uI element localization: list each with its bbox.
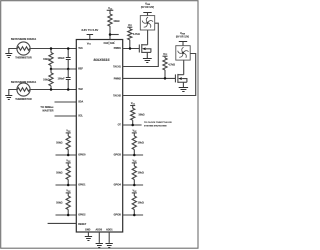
svg-text:REF: REF — [78, 68, 83, 71]
ground (ADD1) — [106, 244, 113, 248]
wire: PWM2 to Q2 gate — [123, 77, 176, 79]
node: GPIO0 junction — [67, 154, 70, 157]
node: GPIO5 junction — [133, 214, 136, 217]
wire: GPIO3 — [123, 154, 143, 156]
wire: PWM1 to Q1 gate — [123, 48, 140, 50]
figure frame border — [1, 1, 198, 249]
thermistor RT1 (BETATHERM 10K3A1) — [11, 38, 37, 59]
svg-text:SYSTEM SHUTDOWN: SYSTEM SHUTDOWN — [144, 125, 167, 127]
power VFAN1 5V OR 12V — [141, 2, 154, 12]
wire: RESET — [48, 222, 77, 224]
wire: SDA to SMBus master — [55, 101, 77, 103]
svg-text:100nF: 100nF — [58, 78, 65, 81]
resistor 10k GPIO3 pullup — [132, 133, 144, 155]
wire: TH2 net — [30, 89, 76, 91]
resistor 10k GPIO0 pullup — [56, 133, 70, 155]
wire: VFAN2 to fan M2 — [182, 42, 184, 46]
svg-text:10kΩ: 10kΩ — [138, 172, 144, 175]
svg-text:TO CLOCK THROTTLE OR: TO CLOCK THROTTLE OR — [144, 122, 172, 124]
op-amp U1 MAX6616 fan controller IC body — [76, 40, 122, 233]
wire: supply to VCC pin — [89, 35, 91, 40]
svg-text:GPIO4: GPIO4 — [114, 184, 122, 187]
svg-text:TH1: TH1 — [78, 47, 83, 50]
svg-text:PWM1: PWM1 — [114, 47, 122, 50]
power VCC (PWM1 pullup) — [127, 24, 133, 27]
resistor R6 10k OT pullup — [131, 106, 145, 126]
svg-text:SDA: SDA — [78, 101, 83, 104]
svg-text:(5V OR 12V): (5V OR 12V) — [176, 37, 189, 39]
label: TO SMBus MASTER — [40, 105, 54, 112]
svg-text:10kΩ: 10kΩ — [138, 142, 144, 145]
resistor R5 4.7k PWM2 pullup — [163, 56, 175, 78]
wire: FANFAIL stub — [110, 34, 119, 36]
wire: Q1 source to ground — [146, 52, 148, 58]
wire: GPIO5 — [123, 214, 143, 216]
resistor R3 10k FANFAIL pullup — [108, 10, 120, 34]
node: TH2/C2 junction — [67, 88, 70, 91]
wire: SCL to SMBus master — [55, 115, 77, 117]
svg-text:MASTER: MASTER — [43, 109, 54, 113]
svg-text:GPIO5: GPIO5 — [114, 214, 122, 217]
svg-text:10kΩ: 10kΩ — [56, 171, 62, 175]
capacitor C1 100nF (TH1 to REF) — [58, 49, 71, 70]
svg-text:100nF: 100nF — [58, 57, 65, 60]
wire: thermistor RT2 to ground — [9, 90, 17, 96]
wire: GPIO2 — [56, 214, 77, 216]
power VCC (GPIO2 pullup) — [66, 190, 72, 193]
node: TH2/R2 junction — [50, 88, 53, 91]
capacitor C2 100nF (REF to TH2) — [58, 69, 71, 90]
node: REF/C1 junction — [67, 68, 70, 71]
resistor R2 10k (REF to TH2) — [43, 69, 53, 90]
wire: fan M1 tach to TACH1 — [123, 23, 159, 66]
wire: Q1 drain to fan M1 — [147, 30, 149, 45]
resistor 10k GPIO4 pullup — [132, 163, 144, 185]
wire: fan M2 tach to TACH2 — [123, 54, 196, 96]
svg-text:MAX6616: MAX6616 — [94, 58, 111, 62]
svg-text:TACH2: TACH2 — [113, 94, 121, 97]
svg-text:GND: GND — [85, 229, 91, 232]
power VCC (GPIO1 pullup) — [66, 160, 72, 163]
power VCC (GPIO3 pullup) — [132, 130, 138, 133]
ground (Q1 source) — [143, 59, 152, 63]
wire: FANFAIL pin — [109, 35, 111, 40]
power VFAN2 5V OR 12V — [176, 32, 189, 42]
svg-text:BETATHERM 10K3A1: BETATHERM 10K3A1 — [11, 81, 37, 84]
svg-text:ADD0: ADD0 — [96, 229, 103, 232]
power VCC (GPIO5 pullup) — [132, 190, 138, 193]
transistor Q2 N-channel MOSFET — [175, 74, 187, 83]
svg-text:(5V OR 12V): (5V OR 12V) — [141, 7, 154, 9]
power supply 3.3V TO 5.5V — [81, 28, 98, 34]
svg-text:OT: OT — [118, 124, 122, 127]
label: TO CLOCK THROTTLE OR SYSTEM SHUTDOWN — [144, 122, 172, 127]
node: REF/R1 junction — [50, 68, 53, 71]
svg-text:10kΩ: 10kΩ — [113, 20, 119, 23]
ground (Q2 source) — [179, 88, 188, 92]
svg-text:GPIO2: GPIO2 — [78, 214, 86, 217]
power VCC (PWM2 pullup) — [163, 53, 169, 56]
resistor 10k GPIO2 pullup — [56, 193, 70, 215]
wire: thermistor RT1 to ground — [9, 49, 17, 54]
svg-text:4.7kΩ: 4.7kΩ — [168, 63, 175, 66]
resistor R1 10k (TH1 to REF) — [43, 49, 53, 70]
svg-text:10kΩ: 10kΩ — [56, 141, 62, 145]
resistor 10k GPIO1 pullup — [56, 163, 70, 185]
svg-text:GPIO3: GPIO3 — [114, 154, 122, 157]
svg-text:10kΩ: 10kΩ — [138, 113, 144, 116]
power VCC (GPIO0 pullup) — [66, 130, 72, 133]
svg-text:BETATHERM 10K3A1: BETATHERM 10K3A1 — [11, 38, 37, 41]
ground (thermistor RT2) — [5, 96, 12, 100]
resistor R4 4.7k PWM1 pullup — [128, 27, 140, 48]
svg-text:THERMISTOR: THERMISTOR — [15, 56, 32, 59]
node: TH1/R1 junction — [50, 47, 53, 50]
svg-text:10kΩ: 10kΩ — [138, 202, 144, 205]
wire: REF net — [51, 68, 76, 70]
wire: GPIO4 — [123, 184, 143, 186]
node: GPIO2 junction — [67, 214, 70, 217]
node: GPIO3 junction — [133, 154, 136, 157]
svg-text:VFAN: VFAN — [145, 2, 151, 5]
wire: Q2 drain to fan M2 — [183, 60, 185, 75]
ground (GND pin) — [85, 237, 92, 241]
ground (ADD0) — [96, 244, 103, 248]
svg-text:10kΩ: 10kΩ — [56, 201, 62, 205]
svg-text:VFAN: VFAN — [180, 32, 186, 35]
svg-text:10kΩ: 10kΩ — [43, 77, 49, 81]
wire: TH1 net — [30, 48, 76, 50]
fan M1 — [140, 16, 154, 30]
node: TH1/C1 junction — [67, 47, 70, 50]
svg-text:FAN_FAIL: FAN_FAIL — [104, 42, 116, 45]
wire: ADD1 pin to ground — [108, 232, 110, 243]
transistor Q1 N-channel MOSFET — [139, 44, 151, 53]
wire: GPIO0 — [56, 154, 77, 156]
power VCC (GPIO4 pullup) — [132, 160, 138, 163]
svg-text:THERMISTOR: THERMISTOR — [15, 98, 32, 101]
power VCC (FANFAIL pullup) — [107, 7, 114, 10]
wire: GPIO1 — [56, 184, 77, 186]
svg-text:ADD1: ADD1 — [106, 229, 113, 232]
wire: GND pin to ground — [87, 232, 89, 236]
wire: ADD0 pin to ground — [98, 232, 100, 243]
svg-text:GPIO1: GPIO1 — [78, 184, 86, 187]
svg-text:TO SMBus: TO SMBus — [40, 105, 54, 109]
resistor 10k GPIO5 pullup — [132, 193, 144, 215]
node: GPIO1 junction — [67, 184, 70, 187]
svg-text:RESET: RESET — [78, 223, 87, 226]
wire: VFAN1 to fan M1 — [147, 13, 149, 16]
svg-text:3.3V TO 5.5V: 3.3V TO 5.5V — [81, 28, 98, 32]
node: PWM1/R4 junction — [129, 47, 132, 50]
node: FANFAIL junction — [109, 33, 112, 36]
svg-text:10kΩ: 10kΩ — [43, 57, 49, 61]
thermistor RT2 (BETATHERM 10K3A1) — [11, 81, 37, 101]
power VCC (OT pullup) — [130, 102, 136, 105]
svg-text:PWM2: PWM2 — [114, 77, 122, 80]
svg-text:TH2: TH2 — [78, 88, 83, 91]
svg-text:SCL: SCL — [78, 115, 83, 118]
wire: Q2 source to ground — [182, 82, 184, 87]
node: PWM2/R5 junction — [164, 77, 167, 80]
node: GPIO4 junction — [133, 184, 136, 187]
node: OT/R6 junction — [131, 124, 134, 127]
ground (thermistor RT1) — [5, 54, 12, 58]
svg-text:4.7kΩ: 4.7kΩ — [133, 33, 140, 36]
svg-text:GPIO0: GPIO0 — [78, 154, 86, 157]
wire: OT output — [123, 124, 142, 126]
svg-text:TACH1: TACH1 — [113, 65, 121, 68]
fan M2 — [176, 46, 190, 60]
